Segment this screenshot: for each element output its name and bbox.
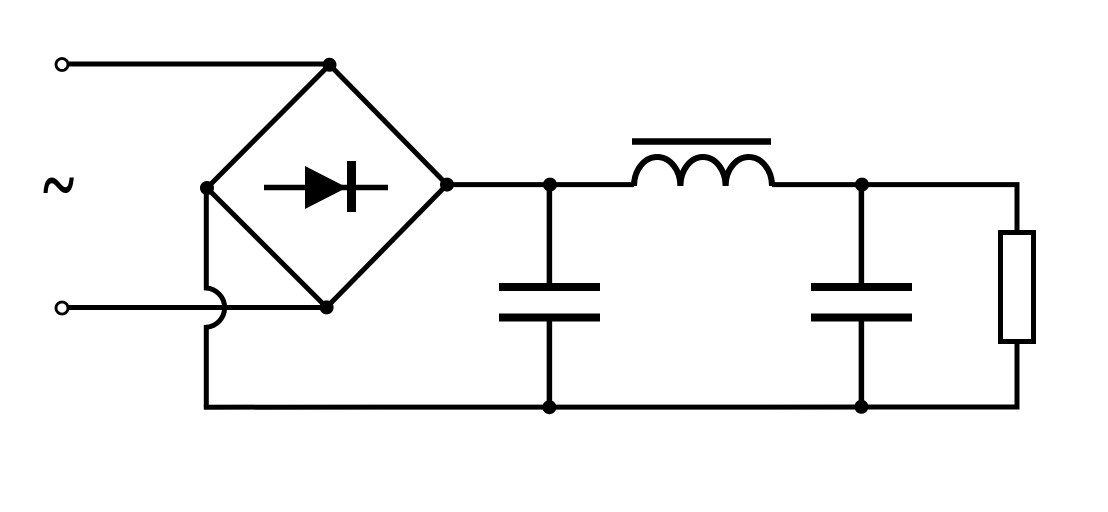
wire: main rail from inductor to right corner (772, 182, 1020, 187)
junction dot: C2 top node (855, 178, 869, 192)
wire: bottom rail (204, 405, 1020, 410)
svg-text:~: ~ (43, 139, 74, 230)
diode symbol inside bridge: lead line (264, 185, 388, 191)
junction dot: bridge bottom vertex (320, 300, 334, 314)
capacitor C1: bottom plate (499, 314, 600, 322)
junction dot: bridge top vertex (323, 58, 337, 72)
bridge rectifier: diamond edge bottom-left (207, 188, 327, 307)
capacitor C1: bottom lead (547, 321, 553, 407)
load resistor R: body rectangle (1001, 233, 1034, 342)
bridge rectifier: diamond edge top-right (330, 65, 448, 185)
bridge rectifier: diamond edge bottom-right (327, 185, 447, 308)
capacitor C1: top plate (499, 283, 600, 291)
junction dot: bridge right vertex (440, 178, 454, 192)
junction dot: bridge left vertex (200, 181, 214, 195)
inductor L: winding humps (634, 157, 772, 186)
diode symbol: cathode bar (347, 161, 356, 212)
wire: main rail from bridge to inductor (447, 182, 634, 187)
junction dot: C1 top node (543, 178, 557, 192)
wire: top input lead (69, 62, 330, 67)
wire: left vertex drop with hop over bottom input lead (206, 188, 224, 407)
terminal: AC input top (open circle) (56, 59, 68, 71)
terminal: AC input bottom (open circle) (56, 302, 68, 314)
capacitor C2: bottom lead (859, 321, 865, 407)
capacitor C2: top lead (859, 185, 865, 284)
capacitor C1: top lead (547, 185, 553, 284)
capacitor C2: top plate (811, 283, 912, 291)
wire: right corner down to resistor top (1015, 183, 1020, 233)
AC source tilde symbol (43, 139, 74, 230)
bridge rectifier: diamond edge top-left (207, 65, 330, 188)
inductor L: core bar (632, 138, 771, 145)
wire: resistor bottom down to bottom rail (1015, 341, 1020, 409)
junction dot: C1 bottom node (542, 400, 556, 414)
diode symbol: anode triangle (305, 166, 347, 209)
wire: bottom input lead (69, 305, 327, 310)
capacitor C2: bottom plate (811, 314, 912, 322)
junction dot: C2 bottom node (854, 400, 868, 414)
